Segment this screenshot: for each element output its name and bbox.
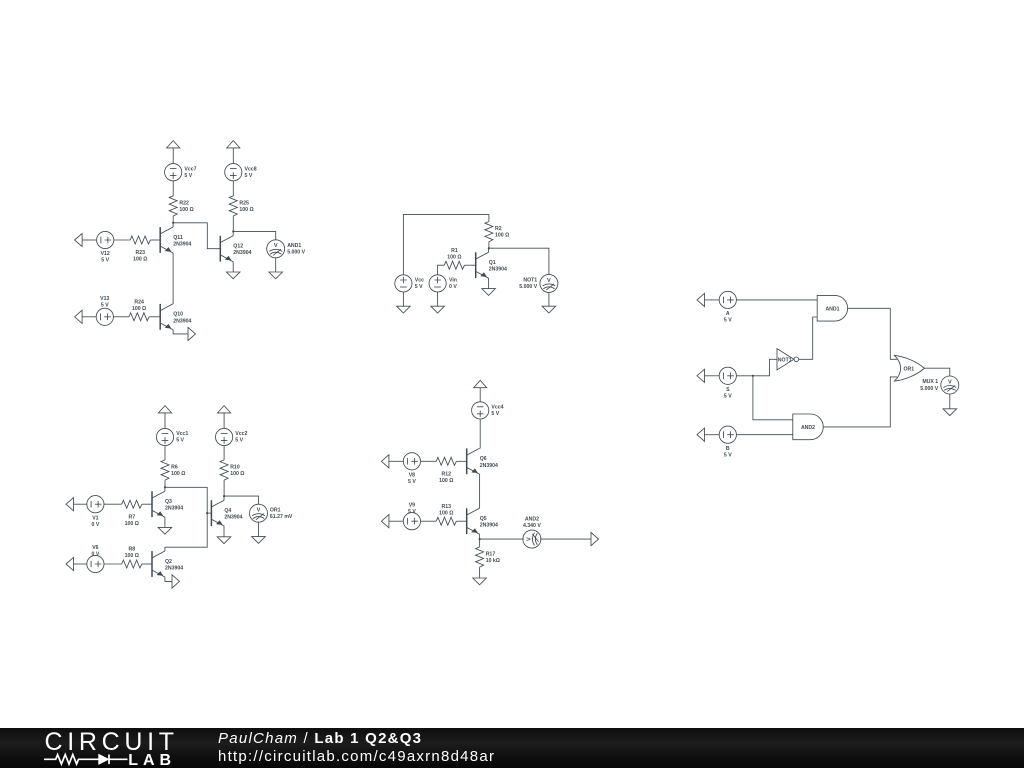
transistor Q5 2N3904 bbox=[467, 508, 480, 534]
wire bbox=[113, 316, 129, 318]
wire Vcc to R2 top bbox=[403, 214, 489, 274]
svg-text:V13: V13 bbox=[100, 296, 109, 302]
svg-text:V8: V8 bbox=[409, 472, 415, 478]
svg-text:5 V: 5 V bbox=[724, 452, 732, 458]
voltmeter AND2 4.340 V (rotated) bbox=[523, 530, 541, 548]
wire bbox=[74, 563, 87, 565]
svg-text:Q10: Q10 bbox=[173, 312, 183, 318]
svg-text:NOT1: NOT1 bbox=[523, 278, 537, 284]
wire Q5 emitter stub bbox=[479, 534, 481, 539]
net flag (up) on Vcc8 bbox=[227, 141, 240, 148]
AND gate AND2 bbox=[793, 414, 823, 440]
svg-text:2N3904: 2N3904 bbox=[173, 318, 191, 324]
svg-text:B: B bbox=[726, 446, 730, 452]
node junction bbox=[488, 247, 490, 249]
wire bbox=[479, 567, 481, 578]
svg-text:S: S bbox=[726, 387, 730, 393]
svg-text:5.000 V: 5.000 V bbox=[519, 284, 537, 290]
transistor Q4 2N3904 bbox=[211, 500, 224, 526]
transistor Q11 2N3904 bbox=[160, 227, 173, 253]
wire bbox=[172, 216, 174, 223]
svg-text:5 V: 5 V bbox=[408, 509, 416, 515]
svg-text:5 V: 5 V bbox=[235, 438, 243, 444]
logo resistor-diode squiggle bbox=[44, 755, 128, 765]
voltage source Vcc4 5 V bbox=[472, 402, 489, 419]
wire bbox=[465, 264, 476, 266]
svg-text:AND1: AND1 bbox=[825, 306, 839, 312]
resistor R23 100 Ω bbox=[130, 236, 150, 244]
resistor R17 10 kΩ bbox=[476, 547, 484, 567]
svg-text:10 kΩ: 10 kΩ bbox=[486, 558, 500, 564]
voltage source V1 0 V bbox=[87, 496, 104, 513]
wire Q4 emitter bbox=[223, 526, 225, 537]
svg-text:Vcc2: Vcc2 bbox=[235, 431, 247, 437]
ground bbox=[431, 306, 445, 313]
wire OR1 out to voltmeter bbox=[924, 368, 949, 376]
wire S to NOT1 bbox=[736, 359, 777, 376]
wire voltmeter to flag bbox=[540, 538, 591, 540]
svg-text:Vcc8: Vcc8 bbox=[245, 166, 257, 172]
node junction bbox=[223, 495, 225, 497]
svg-text:0 V: 0 V bbox=[92, 552, 100, 558]
net flag (left) V6 input bbox=[66, 557, 74, 570]
wire Q3 emitter bbox=[164, 517, 166, 527]
wire bbox=[402, 292, 404, 306]
svg-text:61.27 mV: 61.27 mV bbox=[270, 514, 293, 520]
voltage source Vcc2 5 V bbox=[216, 428, 233, 445]
wire bbox=[142, 503, 152, 505]
voltage source A 5 V bbox=[719, 291, 736, 308]
wire bbox=[232, 181, 234, 196]
voltage source Vcc1 5 V bbox=[156, 428, 173, 445]
svg-text:AND2: AND2 bbox=[801, 425, 815, 431]
net flag (left) V13 input bbox=[75, 310, 83, 323]
svg-text:AND1: AND1 bbox=[287, 243, 301, 249]
net flag (left) B input bbox=[697, 428, 705, 441]
net flag (left) S input bbox=[697, 369, 705, 382]
node junction bbox=[172, 222, 174, 224]
transistor Q10 2N3904 bbox=[160, 304, 173, 330]
wire bbox=[705, 375, 720, 377]
svg-text:V6: V6 bbox=[92, 545, 98, 551]
resistor R22 100 Ω bbox=[169, 196, 177, 216]
net flag (left) V8 input bbox=[381, 455, 389, 468]
svg-text:AND2: AND2 bbox=[525, 516, 539, 522]
wire bbox=[389, 460, 403, 462]
inverter NOT1 bbox=[777, 349, 799, 370]
resistor R10 100 Ω bbox=[220, 460, 228, 480]
wire Q1 collector stub bbox=[488, 248, 490, 252]
wire AND2 out to OR1 bbox=[823, 377, 897, 427]
svg-text:2N3904: 2N3904 bbox=[165, 566, 183, 572]
wire A to AND1 bbox=[736, 299, 817, 301]
transistor Q3 2N3904 bbox=[152, 491, 165, 517]
svg-text:2N3904: 2N3904 bbox=[480, 523, 498, 529]
wire bbox=[479, 388, 481, 402]
resistor R1 100 Ω bbox=[444, 261, 464, 269]
net flag (up) on Vcc2 bbox=[218, 406, 231, 413]
voltage source Vcc 5 V bbox=[395, 275, 412, 292]
wire bbox=[456, 460, 466, 462]
svg-text:Q4: Q4 bbox=[224, 508, 231, 514]
voltage source V13 5 V bbox=[96, 308, 113, 325]
svg-text:Vcc1: Vcc1 bbox=[176, 431, 188, 437]
svg-text:5 V: 5 V bbox=[101, 302, 109, 308]
svg-text:100 Ω: 100 Ω bbox=[179, 207, 193, 213]
wire bbox=[705, 299, 720, 301]
svg-text:5 V: 5 V bbox=[408, 479, 416, 485]
net flag (left) V1 input bbox=[66, 498, 74, 511]
voltage source V9 5 V bbox=[403, 513, 420, 530]
wire bbox=[150, 239, 160, 241]
svg-text:4.340 V: 4.340 V bbox=[523, 523, 541, 529]
svg-text:R10: R10 bbox=[230, 464, 240, 470]
voltage source Vin 0 V bbox=[429, 275, 446, 292]
wire node to voltmeter bbox=[224, 496, 258, 504]
wire Vin bottom bbox=[437, 292, 439, 306]
svg-text:100 Ω: 100 Ω bbox=[125, 521, 139, 527]
wire NOT1 out to AND1 bbox=[799, 317, 817, 359]
wire bbox=[172, 181, 174, 196]
transistor Q12 2N3904 bbox=[220, 236, 233, 262]
net flag (right) output bbox=[591, 533, 599, 546]
resistor R24 100 Ω bbox=[129, 313, 149, 321]
svg-text:R6: R6 bbox=[171, 464, 178, 470]
svg-text:R8: R8 bbox=[128, 547, 135, 553]
svg-text:100 Ω: 100 Ω bbox=[495, 233, 509, 239]
svg-text:Vcc: Vcc bbox=[415, 278, 424, 284]
net flag (right) Q2 emitter bbox=[172, 575, 180, 588]
svg-text:R23: R23 bbox=[136, 250, 146, 256]
wire bbox=[82, 316, 96, 318]
voltage source B 5 V bbox=[719, 426, 736, 443]
wire bbox=[82, 239, 97, 241]
svg-text:2N3904: 2N3904 bbox=[233, 250, 251, 256]
wire Q4 collector stub bbox=[223, 496, 225, 500]
node junction bbox=[479, 538, 481, 540]
footer bar bbox=[0, 728, 1024, 768]
ground bbox=[252, 537, 266, 544]
net flag (right) Q10 emitter bbox=[188, 327, 196, 340]
wire bbox=[232, 216, 234, 231]
svg-text:A: A bbox=[726, 311, 730, 317]
svg-text:Q6: Q6 bbox=[480, 456, 487, 462]
svg-text:2N3904: 2N3904 bbox=[173, 242, 191, 248]
wire Q10 emitter bbox=[173, 330, 188, 334]
svg-text:100 Ω: 100 Ω bbox=[447, 254, 461, 260]
wire bbox=[275, 258, 277, 272]
wire Q3 collector stub bbox=[164, 487, 166, 491]
wire bbox=[164, 446, 166, 460]
svg-text:100 Ω: 100 Ω bbox=[439, 510, 453, 516]
svg-text:5.000 V: 5.000 V bbox=[287, 250, 305, 256]
voltage source V6 0 V bbox=[87, 555, 104, 572]
wire bbox=[705, 434, 720, 436]
svg-text:5 V: 5 V bbox=[184, 173, 192, 179]
wire Q11 emitter to Q10 collector bbox=[172, 253, 174, 304]
wire bbox=[949, 394, 951, 409]
svg-text:100 Ω: 100 Ω bbox=[439, 478, 453, 484]
svg-text:Vcc4: Vcc4 bbox=[491, 405, 503, 411]
wire node to voltmeter bbox=[489, 248, 549, 274]
wire S to AND2 bbox=[753, 376, 793, 420]
resistor R12 100 Ω bbox=[436, 457, 456, 465]
svg-text:5 V: 5 V bbox=[491, 411, 499, 417]
ground bbox=[226, 272, 240, 279]
voltage source S 5 V bbox=[719, 367, 736, 384]
net flag (left) V12 input bbox=[75, 233, 83, 246]
svg-text:0 V: 0 V bbox=[92, 522, 100, 528]
resistor R25 100 Ω bbox=[229, 196, 237, 216]
resistor R7 100 Ω bbox=[122, 500, 142, 508]
net flag (left) A input bbox=[697, 293, 705, 306]
svg-text:R25: R25 bbox=[239, 200, 249, 206]
AND gate AND1 bbox=[817, 295, 847, 321]
node junction bbox=[752, 375, 754, 377]
net flag (up) on Vcc4 bbox=[474, 380, 487, 387]
voltage source V12 5 V bbox=[97, 231, 114, 248]
net flag (left) V9 input bbox=[381, 515, 389, 528]
wire output net bbox=[165, 487, 207, 551]
voltmeter AND1 5.000 V bbox=[267, 240, 285, 258]
wire Q1 emitter bbox=[488, 278, 490, 289]
wire Q12 emitter bbox=[232, 262, 234, 272]
svg-text:Q3: Q3 bbox=[165, 499, 172, 505]
net flag (up) on Vcc1 bbox=[158, 406, 171, 413]
voltage source Vcc7 5 V bbox=[165, 164, 182, 181]
ground bbox=[217, 537, 231, 544]
wire AND1 out to OR1 bbox=[848, 308, 897, 359]
wire bbox=[104, 503, 122, 505]
svg-text:2N3904: 2N3904 bbox=[165, 506, 183, 512]
wire node to R17 bbox=[479, 539, 481, 547]
svg-text:100 Ω: 100 Ω bbox=[239, 207, 253, 213]
resistor R13 100 Ω bbox=[436, 517, 456, 525]
wire Q2 emitter bbox=[165, 577, 172, 582]
svg-text:100 Ω: 100 Ω bbox=[133, 257, 147, 263]
svg-text:100 Ω: 100 Ω bbox=[132, 306, 146, 312]
wire bbox=[223, 413, 225, 429]
wire node to voltmeter bbox=[233, 231, 275, 239]
svg-text:Vcc7: Vcc7 bbox=[184, 166, 196, 172]
wire Q12 collector stub bbox=[232, 231, 234, 235]
wire Q11 collector stub bbox=[172, 223, 174, 227]
wire bbox=[149, 316, 160, 318]
wire bbox=[421, 460, 437, 462]
title text bbox=[218, 730, 495, 768]
svg-text:R2: R2 bbox=[495, 226, 502, 232]
wire bbox=[232, 148, 234, 164]
svg-text:OR1: OR1 bbox=[903, 366, 914, 372]
svg-text:MUX 1: MUX 1 bbox=[922, 379, 938, 385]
wire bbox=[164, 480, 166, 487]
CircuitLab logo bbox=[44, 728, 194, 768]
ground bbox=[397, 306, 411, 313]
svg-text:5 V: 5 V bbox=[101, 258, 109, 264]
voltmeter OR1 61.27 mV bbox=[250, 504, 268, 522]
svg-text:LAB: LAB bbox=[128, 752, 176, 768]
wire Q6 emitter to Q5 collector bbox=[479, 474, 481, 508]
wire node to voltmeter bbox=[480, 538, 524, 540]
svg-text:OR1: OR1 bbox=[270, 507, 281, 513]
svg-text:100 Ω: 100 Ω bbox=[125, 553, 139, 559]
svg-text:5 V: 5 V bbox=[724, 393, 732, 399]
svg-text:Q5: Q5 bbox=[480, 516, 487, 522]
svg-text:100 Ω: 100 Ω bbox=[230, 471, 244, 477]
svg-text:0 V: 0 V bbox=[449, 284, 457, 290]
wire Vin top to R1 bbox=[438, 265, 445, 275]
wire stub to Q4 base bbox=[207, 512, 211, 514]
wire bbox=[114, 239, 130, 241]
resistor R6 100 Ω bbox=[161, 460, 169, 480]
wire bbox=[104, 563, 122, 565]
ground bbox=[482, 289, 496, 296]
wire bbox=[548, 292, 550, 306]
wire bbox=[164, 413, 166, 429]
svg-text:Vin: Vin bbox=[449, 278, 457, 284]
svg-text:Q11: Q11 bbox=[173, 235, 183, 241]
svg-text:5 V: 5 V bbox=[415, 284, 423, 290]
svg-text:R17: R17 bbox=[486, 551, 496, 557]
wire bbox=[223, 446, 225, 460]
wire bbox=[389, 520, 403, 522]
svg-text:R24: R24 bbox=[134, 299, 144, 305]
svg-text:Q12: Q12 bbox=[233, 244, 243, 250]
wire bbox=[172, 148, 174, 164]
net flag (up) on Vcc7 bbox=[167, 141, 180, 148]
svg-text:5 V: 5 V bbox=[724, 318, 732, 324]
ground bbox=[473, 578, 487, 585]
node junction bbox=[164, 486, 166, 488]
wire bbox=[456, 520, 466, 522]
voltage source Vcc8 5 V bbox=[225, 164, 242, 181]
wire bbox=[142, 563, 152, 565]
svg-text:100 Ω: 100 Ω bbox=[171, 471, 185, 477]
svg-text:R7: R7 bbox=[128, 514, 135, 520]
ground bbox=[542, 306, 556, 313]
voltmeter NOT1 5.000 V bbox=[540, 274, 558, 292]
svg-text:5 V: 5 V bbox=[176, 438, 184, 444]
svg-text:Q1: Q1 bbox=[489, 260, 496, 266]
ground bbox=[158, 527, 172, 534]
wire bbox=[258, 522, 260, 536]
transistor Q1 2N3904 bbox=[476, 252, 489, 278]
svg-text:R1: R1 bbox=[451, 248, 458, 254]
wire bbox=[223, 480, 225, 496]
svg-text:NOT1: NOT1 bbox=[778, 357, 792, 363]
wire B to AND2 bbox=[736, 434, 792, 436]
ground bbox=[943, 409, 957, 416]
svg-text:5.000 V: 5.000 V bbox=[920, 386, 938, 392]
svg-text:5 V: 5 V bbox=[245, 173, 253, 179]
svg-text:R22: R22 bbox=[179, 200, 189, 206]
svg-text:R12: R12 bbox=[442, 471, 452, 477]
svg-text:2N3904: 2N3904 bbox=[480, 463, 498, 469]
resistor R8 100 Ω bbox=[122, 560, 142, 568]
svg-text:2N3904: 2N3904 bbox=[489, 267, 507, 273]
svg-text:V1: V1 bbox=[92, 515, 98, 521]
wire Vcc4 to Q6 collector bbox=[479, 419, 481, 448]
voltmeter MUX 1 5.000 V bbox=[941, 376, 959, 394]
svg-text:V12: V12 bbox=[101, 251, 110, 257]
resistor R2 100 Ω bbox=[485, 222, 493, 242]
svg-text:R13: R13 bbox=[442, 504, 452, 510]
transistor Q6 2N3904 bbox=[467, 448, 480, 474]
ground bbox=[269, 272, 283, 279]
wire bbox=[74, 503, 87, 505]
wire bbox=[421, 520, 437, 522]
node junction bbox=[232, 230, 234, 232]
svg-text:2N3904: 2N3904 bbox=[224, 515, 242, 521]
voltage source V8 5 V bbox=[403, 453, 420, 470]
OR gate OR1 bbox=[894, 355, 924, 381]
svg-text:V9: V9 bbox=[409, 502, 415, 508]
wire bbox=[488, 242, 490, 249]
node junction Q4 base bbox=[206, 512, 208, 514]
transistor Q2 2N3904 bbox=[152, 551, 165, 577]
wire to Q12 base bbox=[173, 223, 220, 249]
svg-text:Q2: Q2 bbox=[165, 559, 172, 565]
